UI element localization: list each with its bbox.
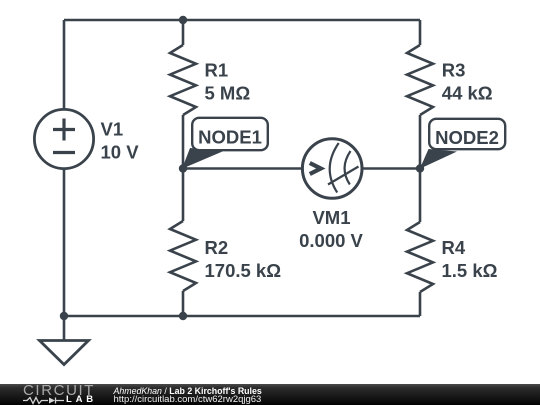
node NODE1 junction (179, 164, 187, 172)
credit line 2 (114, 395, 262, 405)
svg-text:NODE1: NODE1 (198, 127, 262, 148)
resistor R4 (407, 222, 433, 292)
junction top (179, 16, 187, 24)
wire right branch (419, 20, 422, 316)
CircuitLab logo (23, 383, 95, 398)
logo resistor squiggle (23, 396, 66, 405)
footer bar (0, 384, 540, 405)
resistor R3 (407, 45, 433, 115)
svg-text:10 V: 10 V (101, 142, 140, 163)
wire middle rail (183, 167, 420, 170)
voltage source V1 (34, 109, 93, 168)
node NODE1 flag (182, 118, 268, 169)
svg-text:R1: R1 (205, 60, 229, 81)
svg-text:5 MΩ: 5 MΩ (205, 83, 251, 104)
svg-text:R2: R2 (205, 237, 229, 258)
credit line 1 (114, 387, 262, 397)
svg-text:170.5 kΩ: 170.5 kΩ (205, 260, 282, 281)
resistor R2 (170, 221, 196, 291)
wire bottom rail (64, 315, 420, 318)
wire top rail (64, 19, 420, 22)
junction bottom left (60, 312, 68, 320)
svg-text:R3: R3 (442, 60, 466, 81)
svg-text:R4: R4 (442, 237, 466, 258)
svg-text:VM1: VM1 (312, 207, 350, 228)
node NODE2 flag (420, 119, 505, 169)
svg-text:44 kΩ: 44 kΩ (442, 83, 493, 104)
svg-text:0.000 V: 0.000 V (299, 230, 363, 251)
wire middle branch (182, 20, 185, 316)
node NODE2 junction (416, 164, 424, 172)
ground (40, 316, 89, 365)
svg-text:1.5 kΩ: 1.5 kΩ (442, 260, 498, 281)
voltmeter VM1 (302, 139, 362, 199)
svg-text:V1: V1 (101, 119, 124, 140)
svg-text:NODE2: NODE2 (435, 127, 499, 148)
wire left branch (63, 20, 66, 316)
junction bottom middle (179, 312, 187, 320)
resistor R1 (170, 45, 196, 115)
